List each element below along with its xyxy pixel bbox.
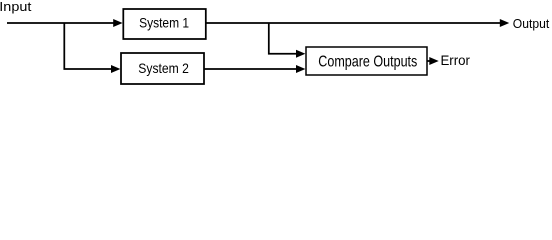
svg-text:System 2: System 2 [138, 60, 189, 76]
svg-text:System 1: System 1 [139, 15, 189, 31]
svg-text:Compare Outputs: Compare Outputs [318, 53, 417, 71]
svg-text:Output: Output [513, 16, 550, 31]
svg-text:Input: Input [0, 0, 32, 14]
svg-text:Error: Error [440, 53, 470, 68]
